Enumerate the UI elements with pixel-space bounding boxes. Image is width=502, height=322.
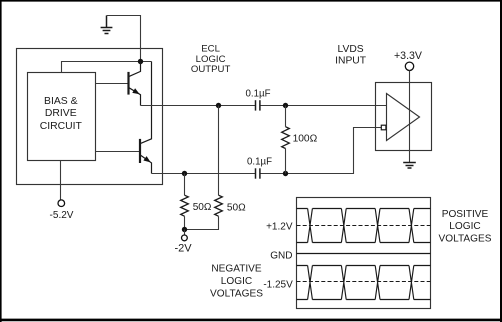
ground (LVDS) <box>403 163 416 169</box>
inverting input square <box>381 125 386 130</box>
resistor 50ohm right <box>215 195 223 216</box>
capacitor C2 0.1uF (bottom) <box>256 168 260 178</box>
svg-text:VOLTAGES: VOLTAGES <box>210 288 263 299</box>
svg-text:GND: GND <box>270 251 292 262</box>
dashed level +1.2V <box>297 225 431 227</box>
svg-text:LOGIC: LOGIC <box>221 276 252 287</box>
transistor Q1 (upper npn) <box>96 62 141 106</box>
svg-text:100Ω: 100Ω <box>293 134 318 145</box>
eye diagram positive <box>297 209 431 243</box>
svg-text:LVDS: LVDS <box>338 44 364 55</box>
junction bottom/100ohm <box>283 171 288 176</box>
svg-text:0.1µF: 0.1µF <box>247 157 272 168</box>
svg-text:CIRCUIT: CIRCUIT <box>40 121 83 132</box>
svg-text:0.1µF: 0.1µF <box>246 89 271 100</box>
terminal -5.2V <box>58 200 65 207</box>
border frame <box>0 0 502 2</box>
capacitor C1 0.1uF (top) <box>256 100 260 110</box>
svg-text:NEGATIVE: NEGATIVE <box>211 264 262 275</box>
dashed level -1.25V <box>297 281 431 283</box>
eye diagram negative <box>297 266 431 300</box>
supply line through box <box>409 83 411 163</box>
svg-text:LOGIC: LOGIC <box>449 221 480 232</box>
wire resistors to -2V rail <box>184 216 186 229</box>
bottom output wire <box>152 173 256 175</box>
top output wire <box>141 105 256 107</box>
wire -5.2V <box>60 161 62 201</box>
wire 50ohm right feed <box>218 106 220 196</box>
collector rail wire <box>62 62 152 73</box>
svg-text:-2V: -2V <box>174 243 192 255</box>
svg-text:50Ω: 50Ω <box>193 202 212 213</box>
outer ECL device box <box>17 49 163 185</box>
GND divider line <box>297 253 431 255</box>
waveform box <box>297 198 431 309</box>
svg-text:OUTPUT: OUTPUT <box>191 64 231 75</box>
junction top/50ohm <box>216 103 221 108</box>
junction collector rail <box>138 59 143 64</box>
svg-text:-5.2V: -5.2V <box>50 210 74 221</box>
svg-text:VOLTAGES: VOLTAGES <box>439 233 492 244</box>
bias & drive circuit box <box>28 73 96 161</box>
junction bottom/50ohm <box>182 171 187 176</box>
svg-text:BIAS &: BIAS & <box>44 96 78 107</box>
terminal -2V <box>182 235 188 241</box>
svg-text:DRIVE: DRIVE <box>45 108 77 119</box>
resistor 50ohm left <box>181 195 189 216</box>
svg-text:INPUT: INPUT <box>335 55 367 66</box>
svg-text:+1.2V: +1.2V <box>266 222 293 233</box>
receiver triangle <box>387 94 420 141</box>
wire 50ohm left feed <box>184 174 186 196</box>
resistor 100ohm <box>285 106 287 127</box>
junction top/100ohm <box>283 103 288 108</box>
LVDS receiver box U1 <box>376 83 432 151</box>
svg-text:-1.25V: -1.25V <box>263 280 293 291</box>
transistor Q2 (lower npn) <box>96 62 152 174</box>
svg-text:+3.3V: +3.3V <box>394 50 423 62</box>
svg-text:50Ω: 50Ω <box>227 202 246 213</box>
ground (top) <box>101 16 113 34</box>
svg-text:POSITIVE: POSITIVE <box>442 209 489 220</box>
wire ground to collector rail <box>107 16 141 62</box>
